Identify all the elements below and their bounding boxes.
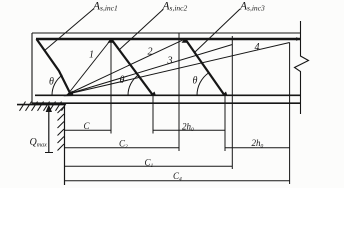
extension vertical at fan4 end (C4 end) <box>289 43 291 185</box>
extension vertical at fan3 end (C1 end) <box>231 36 233 169</box>
leader for As,inc1 <box>44 9 94 52</box>
fan line 3 crack plane <box>68 45 232 95</box>
dimension row2 segment 2h0 right <box>225 147 290 149</box>
bent bar 3 <box>185 39 225 96</box>
extension vertical at apex2 (C end) <box>110 39 112 134</box>
beam outline bottom edge <box>32 102 301 104</box>
beam break cut line right <box>295 21 309 114</box>
Qmax arrowhead <box>46 105 52 113</box>
dimension row3 C1 <box>65 165 233 167</box>
bent bar 1 <box>37 39 71 94</box>
apex blob bar2 <box>108 38 115 43</box>
top bar end arrow <box>296 37 301 41</box>
top longitudinal bar <box>36 38 300 40</box>
bar3 bottom bend blob <box>221 92 228 97</box>
dimension row1 segment C <box>65 129 112 131</box>
dimension row2 segment C2 <box>65 147 180 149</box>
dimension row1 segment 2h0 <box>153 129 225 131</box>
extension vertical at bar2 bottom <box>152 95 154 133</box>
support face vertical <box>64 104 66 186</box>
leader for As,inc2 <box>119 10 163 51</box>
svg-text:1: 1 <box>89 50 94 61</box>
ground hatching <box>20 102 67 111</box>
fan origin arrow blob <box>64 91 74 96</box>
bottom longitudinal bar <box>35 94 300 96</box>
bent bar 2 <box>111 39 153 96</box>
svg-text:3: 3 <box>167 56 173 67</box>
Qmax reaction arrow <box>48 108 50 153</box>
bar2 bottom bend blob <box>150 92 157 97</box>
fan line 4 crack plane <box>68 43 290 95</box>
support face hatching <box>58 107 65 151</box>
fan line 2 crack plane <box>68 39 184 94</box>
svg-text:θ: θ <box>120 75 125 86</box>
svg-text:θ: θ <box>49 77 54 88</box>
extension vertical at bar3 bottom <box>224 95 226 151</box>
theta arc 1 <box>52 75 62 95</box>
fan line 1 crack plane <box>68 40 111 95</box>
theta arc 3 <box>197 73 208 95</box>
beam outline top edge <box>32 32 301 34</box>
extension vertical at apex3 (C2 end) <box>178 34 180 152</box>
svg-text:θ: θ <box>193 76 198 87</box>
svg-text:C: C <box>84 121 91 131</box>
dimension row4 C4 <box>65 180 290 182</box>
svg-text:2: 2 <box>148 47 153 58</box>
svg-text:4: 4 <box>255 42 260 53</box>
theta arc 2 <box>128 75 138 95</box>
beam outline left edge <box>31 33 33 104</box>
leader for As,inc3 <box>195 9 241 53</box>
ground support line <box>17 104 65 106</box>
apex blob bar3 <box>182 38 189 43</box>
